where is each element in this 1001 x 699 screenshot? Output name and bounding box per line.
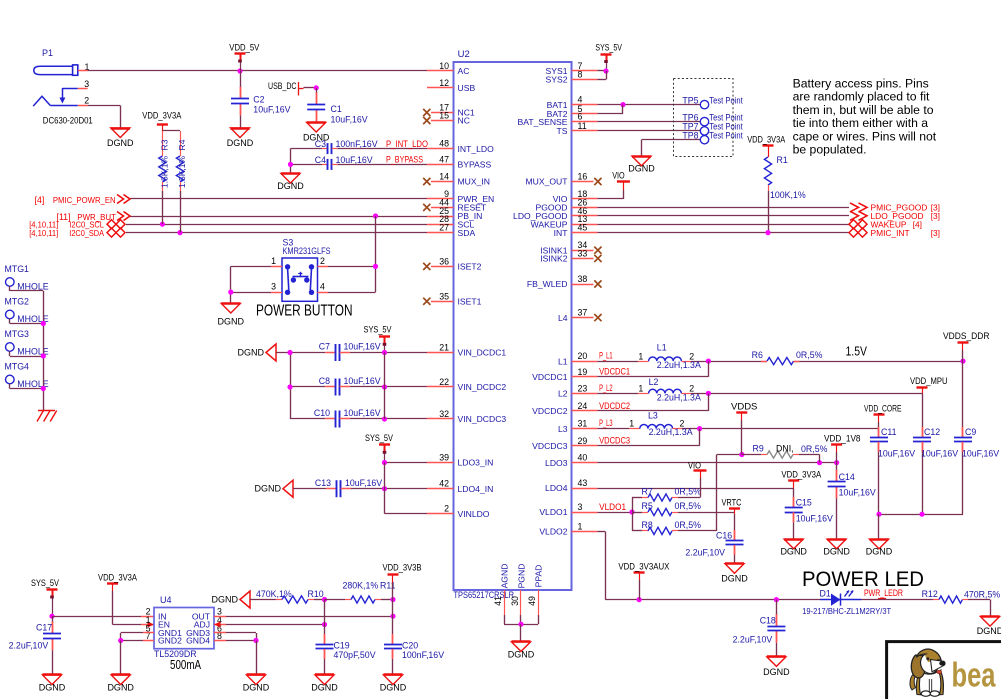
svg-text:27: 27: [439, 223, 449, 233]
svg-text:30: 30: [510, 596, 520, 606]
svg-text:DGND: DGND: [107, 683, 134, 693]
svg-text:KMR231GLFS: KMR231GLFS: [283, 246, 331, 256]
svg-text:DGND: DGND: [218, 317, 245, 327]
svg-text:VDDS_DDR: VDDS_DDR: [943, 331, 990, 341]
svg-text:tie into them either with a: tie into them either with a: [793, 116, 929, 130]
svg-text:DGND: DGND: [277, 181, 304, 191]
svg-text:3: 3: [578, 502, 583, 512]
svg-text:C9: C9: [965, 427, 976, 437]
svg-text:C15: C15: [796, 498, 812, 508]
svg-text:10uF,16V: 10uF,16V: [253, 104, 290, 114]
svg-text:C2: C2: [253, 95, 264, 105]
svg-text:100nF,16V: 100nF,16V: [336, 139, 378, 149]
svg-text:P1: P1: [42, 48, 53, 58]
svg-text:VDCDC2: VDCDC2: [532, 406, 568, 416]
svg-text:are randomly placed to fit: are randomly placed to fit: [793, 90, 930, 104]
svg-text:1.5K,1%: 1.5K,1%: [160, 155, 170, 188]
svg-text:C12: C12: [924, 427, 940, 437]
svg-text:TP8: TP8: [682, 130, 698, 140]
svg-text:11: 11: [578, 121, 587, 131]
svg-text:SYS_5V: SYS_5V: [365, 433, 393, 443]
svg-text:R5: R5: [642, 501, 653, 511]
svg-text:33: 33: [578, 248, 588, 258]
svg-text:0R,5%: 0R,5%: [796, 350, 823, 360]
svg-text:280K,1%: 280K,1%: [343, 581, 379, 591]
svg-text:VDD_3V3B: VDD_3V3B: [383, 563, 422, 573]
svg-text:L2: L2: [558, 389, 568, 399]
svg-text:24: 24: [578, 401, 588, 411]
svg-text:MUX_IN: MUX_IN: [458, 177, 490, 187]
svg-text:3: 3: [271, 282, 276, 292]
svg-text:VIO: VIO: [688, 460, 701, 470]
svg-text:C7: C7: [319, 342, 330, 352]
svg-text:14: 14: [439, 172, 449, 182]
svg-text:P_L1: P_L1: [599, 351, 613, 361]
svg-text:I2C0_SDA: I2C0_SDA: [69, 228, 104, 238]
svg-text:ISINK2: ISINK2: [540, 254, 567, 264]
svg-text:VDCDC3: VDCDC3: [532, 441, 568, 451]
svg-text:VDCDC2: VDCDC2: [599, 401, 630, 411]
svg-text:MTG2: MTG2: [5, 297, 30, 307]
svg-text:R11: R11: [380, 581, 396, 591]
svg-text:4: 4: [320, 282, 325, 292]
svg-text:19-217/BHC-ZL1M2RY/3T: 19-217/BHC-ZL1M2RY/3T: [802, 606, 892, 616]
svg-text:[3]: [3]: [931, 228, 940, 238]
svg-text:Battery access pins. Pins: Battery access pins. Pins: [793, 77, 929, 91]
svg-text:L4: L4: [558, 313, 568, 323]
svg-text:[4]: [4]: [35, 195, 45, 205]
svg-text:MHOLE: MHOLE: [17, 282, 48, 292]
svg-text:0R,5%: 0R,5%: [801, 444, 828, 454]
svg-text:LDO3_IN: LDO3_IN: [458, 458, 494, 468]
svg-text:10uF,16V: 10uF,16V: [878, 448, 915, 458]
svg-text:10uF,16V: 10uF,16V: [344, 376, 381, 386]
svg-text:10uF,16V: 10uF,16V: [336, 155, 373, 165]
svg-text:DGND: DGND: [823, 547, 850, 557]
svg-text:PMIC_INT: PMIC_INT: [871, 228, 910, 238]
svg-text:1: 1: [629, 418, 634, 428]
svg-text:P_BYPASS: P_BYPASS: [386, 155, 423, 165]
svg-text:1: 1: [638, 384, 643, 394]
svg-text:2.2uF,10V: 2.2uF,10V: [733, 634, 773, 644]
svg-text:40: 40: [578, 453, 588, 463]
svg-text:C19: C19: [334, 641, 350, 651]
svg-text:USB_DC: USB_DC: [268, 81, 297, 91]
svg-text:VDD_1V8: VDD_1V8: [824, 434, 861, 444]
svg-text:R6: R6: [752, 350, 763, 360]
svg-text:DGND: DGND: [212, 595, 239, 605]
svg-text:[4]: [4]: [913, 219, 922, 229]
svg-text:Test Point: Test Point: [709, 130, 743, 140]
svg-text:2.2uH,1.3A: 2.2uH,1.3A: [657, 393, 701, 403]
svg-text:L2: L2: [649, 377, 659, 387]
svg-text:[3]: [3]: [931, 211, 940, 221]
svg-text:500mA: 500mA: [170, 658, 202, 672]
svg-text:1: 1: [638, 351, 643, 361]
svg-text:AGND: AGND: [500, 564, 510, 589]
svg-text:L3: L3: [648, 410, 658, 420]
svg-text:470R,5%: 470R,5%: [964, 590, 1000, 600]
svg-text:DGND: DGND: [508, 650, 535, 660]
svg-text:PGND: PGND: [517, 564, 527, 589]
svg-text:GND2: GND2: [158, 636, 182, 646]
svg-text:2.2uH,1.3A: 2.2uH,1.3A: [649, 427, 693, 437]
svg-text:VDD_MPU: VDD_MPU: [910, 376, 948, 386]
svg-text:100K,1%: 100K,1%: [770, 190, 806, 200]
svg-text:MTG3: MTG3: [5, 329, 30, 339]
svg-text:16: 16: [578, 172, 588, 182]
svg-text:36: 36: [439, 256, 449, 266]
svg-text:DGND: DGND: [243, 683, 270, 693]
svg-text:C18: C18: [760, 616, 776, 626]
svg-text:L1: L1: [657, 343, 667, 353]
svg-text:MUX_OUT: MUX_OUT: [525, 177, 568, 187]
svg-text:10uF,16V: 10uF,16V: [962, 448, 999, 458]
svg-text:C11: C11: [881, 427, 897, 437]
svg-text:8: 8: [578, 69, 583, 79]
svg-text:VRTC: VRTC: [722, 498, 742, 508]
svg-text:15: 15: [439, 111, 449, 121]
svg-text:1.5K,1%: 1.5K,1%: [177, 155, 187, 188]
svg-text:39: 39: [439, 453, 449, 463]
svg-text:be populated.: be populated.: [793, 143, 867, 157]
svg-text:DGND: DGND: [628, 164, 655, 174]
svg-text:VIN_DCDC1: VIN_DCDC1: [458, 348, 507, 358]
svg-text:ISET2: ISET2: [458, 262, 482, 272]
svg-text:2.2uH,1.3A: 2.2uH,1.3A: [657, 360, 701, 370]
svg-text:C4: C4: [315, 155, 326, 165]
svg-text:21: 21: [439, 343, 449, 353]
svg-text:100nF,16V: 100nF,16V: [402, 650, 444, 660]
svg-text:U2: U2: [458, 49, 470, 60]
svg-text:DC630-20D01: DC630-20D01: [43, 116, 93, 126]
svg-text:3: 3: [84, 79, 89, 89]
svg-text:VDDS: VDDS: [731, 402, 757, 412]
svg-text:VDCDC1: VDCDC1: [532, 372, 568, 382]
svg-text:[4,10,11]: [4,10,11]: [29, 228, 58, 238]
svg-text:them in, but will be able to: them in, but will be able to: [793, 103, 934, 117]
svg-text:VDCDC1: VDCDC1: [599, 367, 630, 377]
svg-text:bea: bea: [952, 657, 997, 695]
svg-text:C16: C16: [716, 531, 732, 541]
svg-text:10uF,16V: 10uF,16V: [344, 342, 381, 352]
svg-text:DGND: DGND: [380, 683, 407, 693]
svg-text:20: 20: [578, 351, 588, 361]
svg-text:VDD_3V3A: VDD_3V3A: [98, 572, 137, 582]
svg-text:470K,1%: 470K,1%: [256, 589, 292, 599]
svg-text:L1: L1: [558, 356, 568, 366]
svg-text:USB: USB: [458, 83, 476, 93]
svg-text:INT: INT: [554, 228, 569, 238]
svg-text:2: 2: [444, 504, 449, 514]
svg-text:D1: D1: [820, 589, 831, 599]
svg-text:41: 41: [493, 596, 503, 606]
svg-text:29: 29: [578, 436, 588, 446]
svg-text:DGND: DGND: [311, 683, 338, 693]
svg-text:DGND: DGND: [238, 348, 265, 358]
svg-text:37: 37: [578, 308, 588, 318]
svg-text:49: 49: [527, 596, 537, 606]
svg-text:1: 1: [578, 522, 583, 532]
svg-text:VDD_3V3AUX: VDD_3V3AUX: [618, 561, 669, 571]
svg-text:31: 31: [578, 419, 588, 429]
svg-text:GND4: GND4: [186, 636, 210, 646]
svg-text:DGND: DGND: [866, 547, 893, 557]
svg-text:PPAD: PPAD: [534, 565, 544, 588]
svg-text:C1: C1: [331, 104, 342, 114]
svg-text:DGND: DGND: [107, 138, 134, 148]
svg-text:42: 42: [439, 479, 449, 489]
svg-text:FB_WLED: FB_WLED: [527, 279, 568, 289]
svg-text:48: 48: [439, 139, 449, 149]
svg-text:43: 43: [578, 478, 588, 488]
svg-text:C14: C14: [839, 472, 855, 482]
svg-text:R4: R4: [177, 139, 187, 150]
svg-text:R10: R10: [308, 589, 324, 599]
svg-text:10uF,16V: 10uF,16V: [345, 478, 382, 488]
svg-text:VDD_CORE: VDD_CORE: [864, 403, 902, 413]
svg-text:DGND: DGND: [977, 626, 1001, 636]
svg-text:MTG1: MTG1: [5, 264, 30, 274]
svg-text:LDO4: LDO4: [545, 483, 568, 493]
svg-text:PWR_LEDR: PWR_LEDR: [864, 588, 903, 598]
svg-text:NC: NC: [458, 116, 470, 126]
svg-text:VINLDO: VINLDO: [458, 509, 490, 519]
svg-text:SYS_5V: SYS_5V: [364, 324, 392, 334]
svg-text:32: 32: [439, 409, 449, 419]
svg-text:P_INT_LDO: P_INT_LDO: [386, 139, 428, 149]
svg-text:AC: AC: [458, 66, 470, 76]
svg-text:L3: L3: [558, 424, 568, 434]
svg-text:47: 47: [439, 154, 449, 164]
svg-text:10uF,16V: 10uF,16V: [331, 115, 368, 125]
svg-text:C10: C10: [314, 408, 330, 418]
svg-text:MTG4: MTG4: [5, 362, 30, 372]
svg-text:2: 2: [320, 256, 325, 266]
svg-text:22: 22: [439, 377, 449, 387]
svg-text:12: 12: [439, 78, 449, 88]
svg-text:VDD_3V3A: VDD_3V3A: [747, 134, 785, 144]
svg-text:C17: C17: [36, 623, 52, 633]
svg-text:SDA: SDA: [458, 228, 476, 238]
svg-text:10: 10: [439, 61, 449, 71]
svg-text:PMIC_POWR_EN: PMIC_POWR_EN: [53, 195, 116, 205]
svg-text:DGND: DGND: [227, 138, 254, 148]
svg-text:10uF,16V: 10uF,16V: [839, 487, 876, 497]
svg-text:C3: C3: [315, 139, 326, 149]
svg-text:10uF,16V: 10uF,16V: [344, 408, 381, 418]
svg-text:VLDO1: VLDO1: [599, 502, 626, 512]
svg-text:VDCDC3: VDCDC3: [599, 436, 630, 446]
svg-text:45: 45: [578, 223, 588, 233]
svg-text:LDO4_IN: LDO4_IN: [458, 484, 494, 494]
svg-text:DNI,: DNI,: [776, 443, 794, 453]
svg-text:R9: R9: [753, 443, 764, 453]
svg-text:POWER BUTTON: POWER BUTTON: [256, 302, 353, 319]
svg-text:19: 19: [578, 367, 588, 377]
svg-text:470pF,50V: 470pF,50V: [334, 650, 376, 660]
svg-text:DGND: DGND: [255, 484, 282, 494]
svg-text:0R,5%: 0R,5%: [675, 501, 702, 511]
svg-text:2: 2: [84, 96, 89, 106]
svg-text:VLDO2: VLDO2: [539, 527, 567, 537]
svg-text:R1: R1: [777, 155, 788, 165]
svg-text:C13: C13: [315, 478, 331, 488]
svg-text:VDD_5V: VDD_5V: [229, 42, 259, 52]
svg-text:DGND: DGND: [39, 683, 66, 693]
svg-text:TP5: TP5: [682, 95, 698, 105]
svg-text:2.2uF,10V: 2.2uF,10V: [9, 641, 49, 651]
svg-text:SYS_5V: SYS_5V: [31, 578, 59, 588]
svg-text:R3: R3: [160, 139, 170, 150]
svg-text:TS: TS: [557, 126, 568, 136]
svg-text:VIN_DCDC2: VIN_DCDC2: [458, 382, 507, 392]
svg-text:LDO3: LDO3: [545, 458, 568, 468]
svg-text:VIN_DCDC3: VIN_DCDC3: [458, 414, 507, 424]
svg-text:VDD_3V3A: VDD_3V3A: [142, 110, 181, 120]
svg-text:ISET1: ISET1: [458, 297, 482, 307]
svg-text:cape or wires. Pins will not: cape or wires. Pins will not: [793, 129, 937, 143]
svg-text:23: 23: [578, 383, 588, 393]
svg-text:U4: U4: [160, 595, 172, 605]
svg-text:DGND: DGND: [780, 547, 807, 557]
svg-text:10uF,16V: 10uF,16V: [796, 513, 833, 523]
svg-text:VLDO1: VLDO1: [539, 507, 567, 517]
svg-text:R7: R7: [642, 487, 653, 497]
svg-text:C20: C20: [402, 641, 418, 651]
svg-text:BYPASS: BYPASS: [458, 160, 492, 170]
svg-text:2.2uF,10V: 2.2uF,10V: [685, 547, 725, 557]
svg-text:0R,5%: 0R,5%: [675, 487, 702, 497]
svg-text:VIO: VIO: [612, 171, 625, 181]
svg-text:P_L2: P_L2: [599, 383, 613, 393]
svg-text:0R,5%: 0R,5%: [675, 520, 702, 530]
svg-text:VDD_3V3A: VDD_3V3A: [781, 469, 821, 479]
svg-text:35: 35: [439, 291, 449, 301]
svg-text:C8: C8: [319, 376, 330, 386]
svg-text:SYS_5V: SYS_5V: [595, 42, 622, 52]
svg-text:P_L3: P_L3: [599, 418, 613, 428]
svg-text:DGND: DGND: [721, 574, 748, 584]
svg-text:1.5V: 1.5V: [846, 344, 868, 359]
svg-text:INT_LDO: INT_LDO: [458, 144, 495, 154]
svg-text:1: 1: [271, 256, 276, 266]
svg-text:38: 38: [578, 274, 588, 284]
svg-text:10uF,16V: 10uF,16V: [921, 448, 958, 458]
svg-text:SYS2: SYS2: [546, 75, 568, 85]
svg-text:Test Point: Test Point: [709, 95, 743, 105]
svg-text:R12: R12: [922, 589, 938, 599]
svg-text:R8: R8: [642, 520, 653, 530]
svg-text:DGND: DGND: [763, 667, 790, 677]
